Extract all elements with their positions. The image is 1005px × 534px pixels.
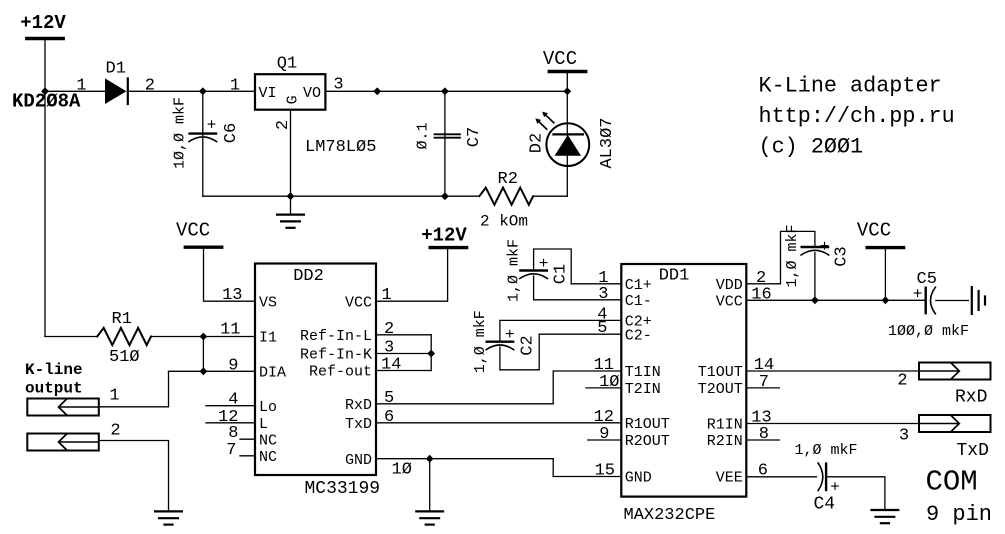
DD1 pin 7 stub T2OUT: [746, 387, 779, 389]
node junction C6 tap: [199, 87, 207, 95]
svg-text:D1: D1: [106, 59, 126, 78]
svg-text:Ref-out: Ref-out: [309, 364, 372, 381]
svg-text:NC: NC: [259, 449, 277, 466]
svg-text:2: 2: [274, 120, 293, 130]
svg-text:C6: C6: [222, 123, 241, 143]
svg-text:1,Ø mkF: 1,Ø mkF: [784, 224, 801, 287]
svg-text:GND: GND: [345, 452, 372, 469]
svg-text:3: 3: [333, 76, 343, 95]
svg-text:6: 6: [384, 408, 394, 427]
svg-text:RxD: RxD: [955, 388, 987, 408]
DD2 pin 14 wire Ref-out: [376, 370, 431, 372]
svg-text:1: 1: [382, 286, 392, 305]
svg-text:3: 3: [899, 427, 909, 446]
svg-text:output: output: [25, 380, 83, 398]
power +12V rail top-left: [27, 38, 63, 40]
svg-text:1Ø: 1Ø: [599, 373, 619, 392]
svg-text:http://ch.pp.ru: http://ch.pp.ru: [759, 104, 955, 129]
node junction DIA: [200, 367, 208, 375]
svg-text:RxD: RxD: [345, 397, 372, 414]
DD2 pin 1 wire VCC to +12V: [376, 249, 448, 301]
svg-text:K-Line adapter: K-Line adapter: [759, 74, 942, 99]
svg-text:D2: D2: [528, 133, 547, 153]
svg-text:2: 2: [897, 372, 907, 391]
svg-text:TxD: TxD: [345, 416, 372, 433]
power VCC rail above LED: [549, 71, 585, 73]
svg-text:1Ø,Ø mkF: 1Ø,Ø mkF: [172, 97, 189, 169]
svg-text:K-line: K-line: [25, 361, 83, 379]
svg-text:C1+: C1+: [625, 277, 652, 294]
svg-text:T1IN: T1IN: [625, 364, 661, 381]
DD2 pin 6 wire TxD to DD1 R1OUT: [376, 422, 621, 424]
svg-text:2: 2: [110, 422, 120, 441]
svg-text:VDD: VDD: [716, 277, 743, 294]
resistor R1: [97, 328, 151, 345]
svg-text:51Ø: 51Ø: [109, 348, 140, 367]
node junction +12V / D1 anode: [41, 87, 49, 95]
svg-text:7: 7: [759, 373, 769, 392]
svg-text:Lo: Lo: [259, 399, 277, 416]
wire I1 node down to DIA: [202, 337, 204, 372]
wire C1 bottom to pin 3: [534, 276, 622, 300]
op-amp U1 chip DD2 box: [255, 264, 376, 476]
svg-text:COM: COM: [926, 466, 978, 499]
wire ground bus under regulator: [203, 195, 480, 197]
svg-text:+: +: [505, 326, 515, 344]
svg-text:2: 2: [384, 320, 394, 339]
svg-text:Ø.1: Ø.1: [415, 122, 432, 149]
svg-text:5: 5: [384, 389, 394, 408]
svg-text:+: +: [539, 255, 549, 273]
ground under C4: [872, 510, 899, 523]
svg-text:DD1: DD1: [659, 267, 690, 286]
node junction C7 top: [441, 87, 449, 95]
svg-text:5: 5: [597, 319, 607, 338]
svg-text:DIA: DIA: [259, 365, 286, 382]
wire Q1 VO to LED: [325, 90, 567, 92]
svg-text:NC: NC: [259, 432, 277, 449]
svg-text:MAX232CPE: MAX232CPE: [624, 506, 716, 525]
DD2 pin 12 wire L: [206, 422, 255, 424]
DD2 pin 2 wire Ref-In-L: [376, 334, 431, 336]
svg-text:+12V: +12V: [20, 12, 66, 34]
connector RxD: [919, 363, 991, 380]
DD1 pin 10 stub T2IN: [586, 387, 621, 389]
wire C1 top loop to pin 1: [534, 249, 622, 284]
svg-text:LM78LØ5: LM78LØ5: [305, 138, 376, 157]
svg-text:DD2: DD2: [293, 267, 324, 286]
svg-text:1,Ø mkF: 1,Ø mkF: [472, 310, 489, 373]
capacitor C7: [435, 134, 460, 137]
wire C4 to ground: [826, 477, 885, 510]
svg-text:Ref-In-K: Ref-In-K: [300, 347, 372, 364]
svg-text:VI: VI: [259, 85, 277, 102]
svg-text:C4: C4: [814, 495, 836, 515]
svg-text:12: 12: [594, 408, 614, 427]
svg-text:Ref-In-L: Ref-In-L: [300, 328, 372, 345]
DD1 pin 16 wire VCC bus: [746, 299, 925, 301]
node junction GND: [426, 455, 434, 463]
wire VCC rail to DD2 pin 13: [204, 249, 256, 301]
wire D1 cathode to Q1 VI: [129, 90, 255, 92]
DD1 pin 14 wire T1OUT to RxD connector: [746, 370, 919, 372]
DD2 pin 7 stub NC: [240, 455, 255, 457]
svg-text:C7: C7: [465, 127, 484, 147]
capacitor C2: [486, 342, 514, 350]
wire joining pins 2 3 14: [430, 335, 432, 371]
svg-text:1Ø: 1Ø: [392, 461, 412, 480]
ground under connector 2: [155, 511, 182, 524]
wire C2 bottom loop to pin 5: [500, 334, 621, 370]
node junction pin 3 loop: [427, 350, 435, 358]
svg-text:KD2Ø8A: KD2Ø8A: [12, 91, 81, 113]
svg-text:+: +: [207, 117, 217, 135]
svg-text:T2IN: T2IN: [625, 381, 661, 398]
svg-text:VCC: VCC: [543, 48, 577, 70]
capacitor C4: [818, 463, 826, 491]
DD2 pin 4 wire Lo: [206, 405, 255, 407]
svg-text:9 pin: 9 pin: [926, 502, 992, 527]
DD2 pin 3 wire Ref-In-K: [376, 353, 431, 355]
svg-text:C5: C5: [917, 270, 937, 289]
wire node to D1 anode: [45, 90, 105, 92]
svg-text:I1: I1: [259, 330, 277, 347]
wire R1 to DD2 pin 11: [151, 336, 255, 338]
svg-text:11: 11: [220, 321, 240, 340]
node junction C7 bottom: [441, 192, 449, 200]
DD1 pin 9 stub R2OUT: [588, 439, 622, 441]
resistor R2: [479, 188, 533, 205]
svg-text:+12V: +12V: [421, 225, 467, 247]
svg-text:VCC: VCC: [857, 219, 891, 241]
wire C7 vertical: [444, 91, 446, 196]
wire VCC rail down to bus: [884, 249, 886, 300]
DD1 pin 13 wire R1IN to TxD connector: [746, 423, 919, 425]
svg-text:GND: GND: [625, 470, 652, 487]
svg-text:(c) 2ØØ1: (c) 2ØØ1: [759, 135, 864, 160]
wire connector 2 to ground: [99, 441, 169, 512]
svg-text:L: L: [259, 416, 268, 433]
svg-text:1,Ø mkF: 1,Ø mkF: [506, 239, 523, 302]
node junction LED top: [563, 87, 571, 95]
ground under DD2 GND: [416, 511, 443, 524]
svg-text:C1-: C1-: [625, 293, 652, 310]
DD2 pin 8 stub NC: [240, 438, 255, 440]
wire R2 to LED bottom: [533, 195, 567, 197]
node junction R1 / DIA: [200, 333, 208, 341]
svg-text:1ØØ,Ø mkF: 1ØØ,Ø mkF: [888, 323, 969, 340]
svg-text:1: 1: [76, 77, 86, 96]
wire C3 bottom to VCC bus: [814, 253, 816, 301]
svg-text:C3: C3: [833, 246, 852, 266]
DD2 pin 10 wire GND: [376, 458, 553, 460]
node junction on VCC wire: [373, 87, 381, 95]
wire DIA elbow down to connector 1: [99, 371, 169, 407]
svg-text:9: 9: [599, 425, 609, 444]
DD1 pin 2 wire VDD to C3: [746, 231, 815, 283]
svg-text:VCC: VCC: [716, 294, 743, 311]
svg-text:R1: R1: [112, 310, 132, 329]
wire RxD riser to T1IN: [553, 371, 621, 404]
DD1 pin 6 wire VEE to C4: [746, 476, 816, 478]
svg-text:13: 13: [222, 286, 242, 305]
wire Q1 G pin down: [290, 110, 292, 214]
wire +12V down left side: [44, 40, 46, 337]
connector K-line output pin 2: [27, 434, 99, 451]
svg-text:16: 16: [751, 285, 771, 304]
node junction VCC rail / bus: [882, 296, 890, 304]
svg-text:R2: R2: [498, 170, 518, 189]
wire DIA to DD2 pin 9: [169, 370, 256, 372]
LED D2: [535, 112, 589, 166]
wire GND riser to DD1 GND pin 15: [553, 459, 621, 477]
node junction C3 / VCC bus: [811, 296, 819, 304]
capacitor C3: [801, 247, 829, 255]
svg-text:14: 14: [381, 356, 401, 375]
ground right of C5: [972, 287, 985, 314]
svg-text:VS: VS: [259, 294, 277, 311]
svg-text:C2: C2: [519, 335, 538, 355]
svg-text:C2-: C2-: [625, 327, 652, 344]
ground under Q1: [277, 215, 304, 228]
DD2 pin 5 wire RxD: [376, 403, 553, 405]
op-amp U2 chip DD1 box: [621, 264, 746, 497]
wire VCC to LED and down to R2: [566, 73, 568, 196]
svg-text:AL3Ø7: AL3Ø7: [598, 117, 617, 168]
svg-text:VEE: VEE: [716, 470, 743, 487]
svg-text:T1OUT: T1OUT: [698, 364, 743, 381]
svg-text:R1OUT: R1OUT: [625, 416, 670, 433]
DD1 pin 8 stub R2IN: [746, 439, 779, 441]
svg-text:T2OUT: T2OUT: [698, 381, 743, 398]
svg-text:VCC: VCC: [345, 294, 372, 311]
svg-text:6: 6: [758, 462, 768, 481]
voltage regulator Q1: [255, 74, 325, 110]
svg-text:R2IN: R2IN: [707, 433, 743, 450]
wire C2 top to pin 4: [500, 320, 621, 341]
diode D1: [105, 78, 128, 104]
svg-text:VCC: VCC: [176, 220, 210, 242]
capacitor C5: [926, 287, 936, 314]
power VCC rail above DD2: [185, 246, 221, 248]
svg-text:R2OUT: R2OUT: [625, 433, 670, 450]
svg-text:VO: VO: [303, 85, 321, 102]
svg-text:G: G: [285, 95, 302, 104]
svg-text:1: 1: [109, 387, 119, 406]
capacitor C6: [189, 134, 217, 142]
power +12V rail above DD2 VCC: [430, 247, 466, 249]
svg-text:1,Ø mkF: 1,Ø mkF: [795, 442, 858, 459]
svg-text:MC33199: MC33199: [305, 479, 381, 499]
svg-text:2 kOm: 2 kOm: [480, 213, 528, 231]
wire C6 vertical: [202, 91, 204, 196]
node junction Q1 GND: [287, 192, 295, 200]
wire GND down to ground: [429, 459, 431, 511]
capacitor C1: [520, 271, 548, 279]
svg-text:C1: C1: [552, 264, 571, 284]
svg-text:3: 3: [598, 285, 608, 304]
svg-text:15: 15: [595, 462, 615, 481]
svg-text:8: 8: [759, 425, 769, 444]
wire +12V elbow to R1: [45, 336, 97, 338]
svg-text:TxD: TxD: [957, 441, 989, 461]
svg-text:9: 9: [228, 356, 238, 375]
power VCC rail right: [867, 247, 903, 249]
svg-text:+: +: [820, 238, 830, 256]
svg-text:1: 1: [230, 77, 240, 96]
wire C5 to ground: [936, 300, 969, 302]
connector K-line output pin 1: [27, 399, 99, 416]
connector TxD: [919, 415, 991, 432]
svg-text:2: 2: [145, 77, 155, 96]
svg-text:7: 7: [226, 441, 236, 460]
svg-text:Q1: Q1: [277, 55, 297, 74]
svg-text:R1IN: R1IN: [707, 417, 743, 434]
